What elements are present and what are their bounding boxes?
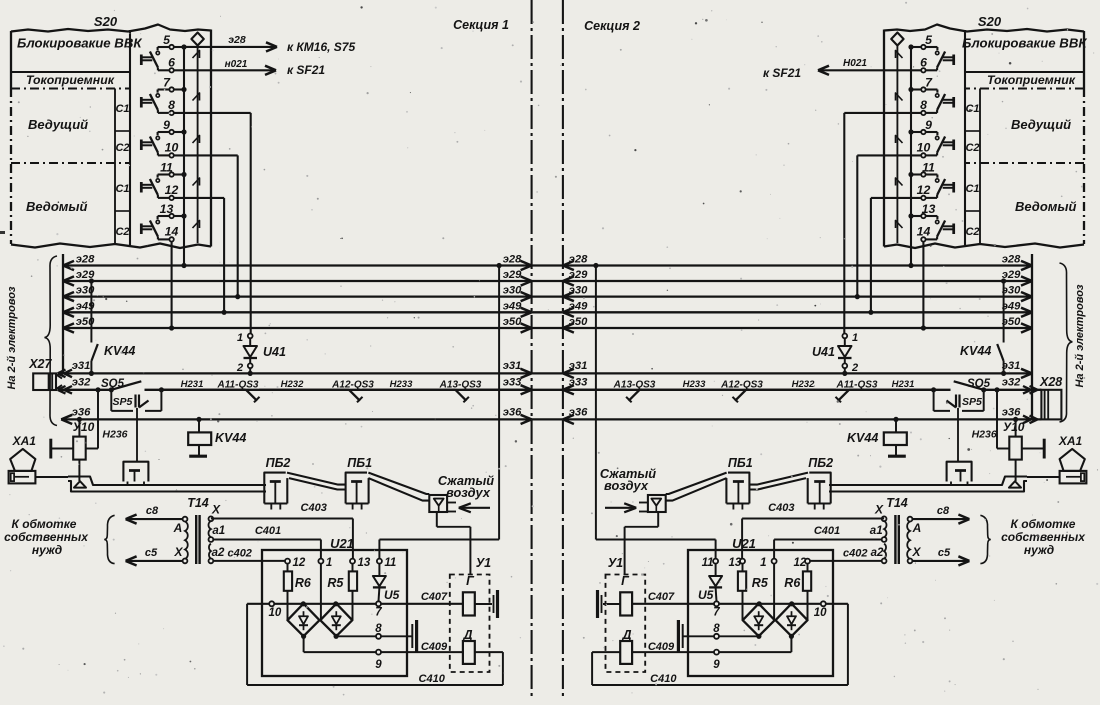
svg-text:10: 10 [165, 140, 179, 154]
contact KV44 (left) [89, 278, 98, 376]
pin number 6 (right) [920, 55, 927, 69]
svg-text:2: 2 [851, 362, 858, 374]
svg-text:Г: Г [621, 574, 630, 588]
svg-text:э32: э32 [1002, 377, 1021, 389]
wire contact 8 down to diode U41 (left) [174, 113, 251, 334]
svg-text:э28: э28 [1002, 254, 1021, 266]
electro-pneumatic valve Y1 (left) [450, 575, 498, 673]
pin number 8 (right) [920, 98, 927, 112]
resistor R6 (right) [803, 564, 811, 621]
label U41 pin 1 (right) [852, 332, 858, 344]
electro-pneumatic valve Y1 (right) [598, 575, 646, 673]
svg-text:7: 7 [713, 607, 720, 619]
svg-text:8: 8 [375, 623, 382, 635]
wire collector vertical to bus e28 (right) [908, 47, 913, 268]
svg-text:Ведущий: Ведущий [28, 117, 88, 132]
label S20 (right) [978, 14, 1002, 29]
svg-text:Т14: Т14 [187, 496, 209, 510]
label SQ5 (right) [967, 378, 991, 390]
S20 blocking-switch box outline (left) [11, 25, 211, 249]
svg-text:R6: R6 [295, 576, 312, 590]
bridge rectifier 2 in U21 (right) [743, 604, 775, 637]
label U41 (left) [263, 345, 286, 359]
label C407 (right) [648, 591, 675, 603]
label D (left) [462, 628, 472, 642]
label U21 (right) [732, 536, 756, 551]
label C2 cell 4 (right) [965, 226, 979, 238]
label C409 (left) [421, 641, 448, 653]
label pin 7 (right) [713, 607, 720, 619]
wire e33 last segment (right) [563, 389, 627, 391]
svg-text:э50: э50 [503, 316, 522, 328]
pin number 5 (left) [163, 33, 170, 47]
svg-text:С401: С401 [255, 525, 281, 537]
label C2 cell 2 (right) [965, 142, 979, 154]
wire e31 (left) [58, 360, 531, 378]
svg-text:8: 8 [168, 98, 175, 112]
air hose XA1 (left) [9, 449, 36, 484]
label U5 (left) [384, 588, 400, 602]
U21 pin 11 (left) [377, 557, 396, 569]
svg-text:11: 11 [702, 557, 714, 569]
pipe air to valve Y1 (right) [625, 512, 659, 575]
svg-text:Ведомый: Ведомый [26, 199, 87, 214]
svg-text:э50: э50 [569, 316, 588, 328]
svg-text:С401: С401 [814, 525, 840, 537]
svg-text:нужд: нужд [1024, 543, 1054, 557]
bridge rectifier 2 in U21 (left) [320, 604, 352, 637]
label C1 cell 3 (left) [115, 183, 129, 195]
svg-text:Н233: Н233 [390, 379, 413, 390]
svg-text:с8: с8 [146, 505, 159, 517]
contact SP5 (right) [934, 390, 984, 411]
contact S20:13-14 (right) [921, 214, 954, 242]
svg-text:э31: э31 [1002, 360, 1021, 372]
label n021 [225, 59, 248, 70]
pipe SP5 to air sensor (right) [957, 408, 959, 462]
wire contact 11 to collector (right) [908, 172, 921, 177]
label pin 10 (left) [269, 607, 282, 619]
svg-text:11: 11 [384, 557, 396, 569]
svg-text:э33: э33 [503, 377, 522, 389]
label C402 (left) [227, 548, 251, 560]
wire contact 11 to collector (left) [174, 172, 187, 177]
pantograph diamond and marked line (right) [891, 33, 903, 244]
label to KM16,S75 [287, 40, 355, 54]
disconnector А12-QS3 blade (right) [733, 390, 837, 403]
transformer T14 (left) [183, 515, 214, 564]
svg-text:А: А [912, 521, 922, 535]
wire C401 (left) [213, 540, 321, 559]
label pin 8 (right) [713, 623, 720, 635]
svg-text:Ведущий: Ведущий [1011, 117, 1071, 132]
svg-text:10: 10 [917, 140, 931, 154]
svg-text:Х27: Х27 [28, 357, 52, 371]
contact S20:7-8 (left) [141, 87, 174, 115]
label C407 (left) [421, 591, 448, 603]
U21 pin 12 (right) [794, 557, 811, 569]
label Blokirovanie VVK (right) [962, 36, 1087, 51]
svg-text:С407: С407 [421, 591, 448, 603]
pantograph diamond and marked line (left) [191, 33, 203, 244]
svg-text:Секция 1: Секция 1 [453, 18, 509, 32]
pin number 9 (left) [163, 118, 170, 132]
label wire Н232 (right) [792, 379, 815, 390]
label U41 pin 2 (left) [236, 362, 243, 374]
svg-text:Секция 2: Секция 2 [584, 19, 640, 33]
label U21 (left) [330, 536, 354, 551]
svg-text:э30: э30 [1002, 285, 1021, 297]
wire e32/e33 (right) [563, 377, 1042, 395]
svg-text:Н236: Н236 [972, 429, 997, 441]
label Tokopriemnik (left) [26, 73, 115, 87]
svg-text:Токоприемник: Токоприемник [26, 73, 115, 87]
diode U5 (left) [373, 564, 386, 602]
label C1 cell 1 (right) [965, 103, 979, 115]
label S20 (left) [94, 14, 118, 29]
label N236 (left) [102, 429, 127, 441]
svg-text:14: 14 [165, 224, 179, 238]
svg-text:воздух: воздух [446, 485, 491, 500]
wire e31 (right) [563, 360, 1032, 378]
svg-text:С403: С403 [301, 502, 327, 514]
svg-text:э31: э31 [503, 360, 522, 372]
contact S20:5-6 (left) [141, 45, 174, 73]
label n021 (right) [843, 58, 867, 69]
svg-text:C1: C1 [115, 103, 129, 115]
contact S20:9-10 (left) [141, 130, 174, 158]
label c8 (left) [146, 505, 159, 517]
label wire Н232 (left) [281, 379, 304, 390]
label c5 (left) [145, 547, 158, 559]
label U41 pin 1 (left) [237, 332, 243, 344]
pipe air to valve Y1 (left) [437, 512, 471, 575]
diode U5 (right) [709, 564, 722, 602]
label C403 (right) [768, 502, 794, 514]
svg-text:KV44: KV44 [104, 344, 135, 358]
svg-text:к SF21: к SF21 [287, 63, 325, 77]
label C410 (right) [650, 673, 677, 685]
pin number 11 (right) [922, 161, 935, 175]
label wire Н231 (right) [892, 379, 915, 390]
wire contact 13 to collector (left) [174, 213, 187, 218]
label T14 A (right) [912, 521, 922, 535]
svg-text:а1: а1 [212, 525, 225, 537]
label U41 pin 2 (right) [851, 362, 858, 374]
wire contact 7 to collector (right) [908, 87, 921, 92]
label C410 (left) [419, 673, 446, 685]
wire C402 (left) [213, 560, 285, 562]
label KV44 (right) [960, 344, 991, 358]
svg-text:Д: Д [462, 628, 472, 642]
label C409 (right) [648, 641, 675, 653]
brace to own-needs winding (right) [980, 515, 990, 563]
connector X28 (right) [1041, 390, 1061, 420]
svg-text:SQ5: SQ5 [101, 378, 125, 390]
svg-text:8: 8 [713, 623, 720, 635]
svg-text:Н021: Н021 [843, 58, 867, 69]
connector X27 (left) [33, 370, 72, 394]
contact SQ5 (right) [931, 381, 986, 392]
svg-text:к КМ16, S75: к КМ16, S75 [287, 40, 355, 54]
wire c5 (right) [912, 556, 969, 565]
label KV44 coil (left) [215, 431, 246, 445]
svg-text:э28: э28 [569, 254, 588, 266]
wire contact 14 to bus e50 (left) [169, 242, 174, 331]
bus wire э28 (right) [563, 254, 1032, 271]
svg-text:12: 12 [165, 183, 179, 197]
svg-text:А11-QS3: А11-QS3 [217, 380, 259, 391]
svg-text:7: 7 [375, 607, 382, 619]
svg-text:U5: U5 [698, 588, 714, 602]
svg-text:Н231: Н231 [892, 379, 915, 390]
contact SP5 (left) [111, 390, 161, 411]
pneumatic interlock PB2 (right) [808, 473, 831, 510]
contact S20:11-12 (right) [921, 172, 954, 200]
svg-text:12: 12 [293, 557, 306, 569]
label T14 X upper (right) [874, 503, 884, 517]
svg-text:1: 1 [760, 557, 766, 569]
pin number 6 (left) [168, 55, 175, 69]
svg-text:э50: э50 [1002, 316, 1021, 328]
U21 pin 12 (left) [285, 557, 306, 569]
air pipe from XA1 (right) [829, 477, 1060, 492]
resistor R5 (left) [349, 564, 357, 621]
label XA1 (left) [12, 434, 37, 448]
label Vedomyy (right) [1015, 199, 1076, 214]
label c5 (right) [938, 547, 951, 559]
svg-text:U41: U41 [263, 345, 286, 359]
svg-text:э33: э33 [569, 377, 588, 389]
S20 blocking-switch box outline (right) [884, 25, 1084, 249]
svg-text:э30: э30 [503, 285, 522, 297]
svg-text:А12-QS3: А12-QS3 [331, 380, 374, 391]
wire contact 12 to bus e49 (left) [174, 198, 227, 315]
svg-text:а2: а2 [871, 547, 884, 559]
svg-text:5: 5 [925, 33, 932, 47]
pipe SP5 to air sensor (left) [136, 408, 138, 462]
brace to own-needs winding [104, 515, 114, 563]
label А12-QS3 (right) [720, 380, 763, 391]
label PB2 (right) [808, 456, 833, 470]
svg-text:ПБ1: ПБ1 [728, 456, 753, 470]
svg-text:э28: э28 [503, 254, 522, 266]
svg-text:R5: R5 [327, 576, 344, 590]
wire C401 (right) [774, 540, 882, 559]
svg-text:Блокировакие ВВК: Блокировакие ВВК [962, 36, 1087, 51]
svg-text:э28: э28 [228, 34, 246, 46]
svg-text:C2: C2 [965, 142, 979, 154]
wire pin7/pin10 rail with C407 (left) [247, 601, 463, 606]
label C401 (left) [255, 525, 281, 537]
label C403 (left) [301, 502, 327, 514]
svg-text:9: 9 [163, 118, 170, 132]
svg-text:U21: U21 [330, 536, 354, 551]
svg-text:1: 1 [326, 557, 332, 569]
label Szhatyi vozdukh (right) [600, 466, 656, 493]
label K obmotke sobstvennykh nuzhd (right) [1001, 517, 1086, 557]
svg-text:12: 12 [794, 557, 807, 569]
label N236 (right) [972, 429, 997, 441]
pressure sensor housing for SP5 (right) [947, 462, 972, 485]
rectifier block U21 outline (left) [262, 550, 407, 676]
resistor R5 (right) [738, 564, 746, 621]
bridge rectifier 1 in U21 (left) [288, 604, 320, 637]
bus terminus vertical (right) [1031, 254, 1033, 419]
svg-text:э28: э28 [76, 254, 95, 266]
wire contact 10 to bus e30 (right) [855, 155, 922, 299]
svg-text:воздух: воздух [604, 478, 649, 493]
svg-text:KV44: KV44 [215, 431, 246, 445]
svg-text:А11-QS3: А11-QS3 [836, 380, 878, 391]
svg-text:э36: э36 [569, 407, 588, 419]
svg-text:U41: U41 [812, 345, 835, 359]
pin number 7 (right) [925, 76, 933, 90]
svg-text:э49: э49 [569, 300, 588, 312]
label Sektsiya 1 [453, 18, 509, 32]
svg-text:А13-QS3: А13-QS3 [613, 380, 656, 391]
label Y1 (right) [608, 556, 623, 570]
section divider line (section 1) [531, 0, 533, 700]
disconnector А12-QS3 blade (left) [259, 390, 363, 403]
bus wire э50 (right) [563, 316, 1032, 333]
transformer T14 (right) [882, 515, 913, 564]
svg-text:с8: с8 [937, 505, 950, 517]
valve Y10 (left) [51, 387, 101, 487]
svg-text:Н231: Н231 [181, 379, 204, 390]
svg-text:C1: C1 [115, 183, 129, 195]
wire e36 (right) [563, 407, 1042, 425]
svg-text:C1: C1 [965, 103, 979, 115]
svg-text:С410: С410 [419, 673, 446, 685]
wire e36 (left) [61, 407, 531, 425]
pin number 14 (left) [165, 224, 179, 238]
bus wire э28 (left) [63, 254, 532, 271]
bus wire э29 (right) [563, 269, 1032, 286]
label D (right) [621, 628, 631, 642]
bus wire э29 (left) [63, 269, 532, 286]
svg-text:собственных: собственных [4, 530, 89, 544]
label Sektsiya 2 [584, 19, 640, 33]
svg-text:Х: Х [874, 503, 884, 517]
wire contact 14 to bus e50 (right) [921, 242, 926, 331]
label T14 a2 (right) [871, 547, 884, 559]
wire U21 pin 1 to bridge vertex (left) [320, 564, 322, 621]
svg-text:К обмотке: К обмотке [12, 517, 77, 531]
svg-text:с5: с5 [145, 547, 158, 559]
svg-text:э49: э49 [1002, 300, 1021, 312]
brace to 2nd locomotive (right) [1060, 263, 1073, 422]
svg-text:9: 9 [925, 118, 932, 132]
brace to 2nd locomotive (left) [45, 256, 58, 426]
U21 pin 1 (right) [760, 557, 777, 569]
wire pin 8 with capacitor C409 (right) [678, 620, 761, 652]
svg-text:14: 14 [917, 224, 931, 238]
compressed air inlet (right) [605, 495, 666, 512]
disconnector А13-QS3 blade (left) [362, 390, 469, 403]
wire C403 (right) [742, 519, 884, 559]
label c8 (right) [937, 505, 950, 517]
bus terminus vertical (left) [62, 254, 64, 373]
contact S20:9-10 (right) [921, 130, 954, 158]
label KV44 (left) [104, 344, 135, 358]
label T14 X lower (right) [911, 545, 921, 559]
pin number 8 (left) [168, 98, 175, 112]
svg-text:собственных: собственных [1001, 530, 1086, 544]
bus wire э50 (left) [63, 316, 532, 333]
label Y10 (right) [1003, 420, 1025, 434]
label R6 (left) [295, 576, 312, 590]
air hose XA1 (right) [1060, 449, 1087, 484]
svg-text:с5: с5 [938, 547, 951, 559]
pneumatic interlock PB1 (right) [726, 473, 749, 510]
pin number 14 (right) [917, 224, 931, 238]
svg-text:С410: С410 [650, 673, 677, 685]
svg-text:Токоприемник: Токоприемник [987, 73, 1076, 87]
pressure sensor housing for SP5 (left) [123, 462, 148, 485]
disconnector А11-QS3 blade (left) [161, 390, 259, 403]
wire contact 9 to collector (left) [174, 129, 187, 134]
svg-text:13: 13 [729, 557, 742, 569]
wire contact 8 down to diode U41 (right) [844, 113, 921, 334]
resistor R6 (left) [284, 564, 292, 621]
label T14 a1 (left) [212, 525, 225, 537]
svg-text:SP5: SP5 [113, 396, 133, 408]
contact S20:11-12 (left) [141, 172, 174, 200]
label R5 (right) [752, 576, 769, 590]
wire pin 8 with capacitor C409 (left) [334, 620, 417, 652]
svg-text:1: 1 [237, 332, 243, 344]
label Tokopriemnik (right) [987, 73, 1076, 87]
label PB1 (right) [728, 456, 753, 470]
svg-text:11: 11 [922, 161, 935, 175]
svg-text:9: 9 [375, 659, 382, 671]
bus wire э30 (left) [63, 285, 532, 302]
label U41 (right) [812, 345, 835, 359]
svg-text:Х: Х [173, 545, 183, 559]
label to SF21 (right) [763, 66, 801, 80]
label pin 9 (left) [375, 659, 382, 671]
svg-text:ХА1: ХА1 [1058, 434, 1083, 448]
label Na 2-y elektrovoz (right) [1074, 284, 1086, 387]
svg-text:11: 11 [160, 161, 173, 175]
svg-text:U5: U5 [384, 588, 400, 602]
label Y10 (left) [73, 420, 95, 434]
wire contact 9 to collector (right) [908, 129, 921, 134]
label Na 2-y elektrovoz (left) [6, 286, 18, 389]
svg-text:SP5: SP5 [962, 396, 982, 408]
svg-text:1: 1 [852, 332, 858, 344]
label А11-QS3 (right) [836, 380, 878, 391]
svg-text:а2: а2 [212, 547, 225, 559]
wire C402 (right) [810, 560, 882, 562]
svg-text:э36: э36 [72, 407, 91, 419]
wire e28 to KM16,S75 with arrow [184, 42, 277, 51]
U21 pin 13 (left) [350, 557, 371, 569]
svg-text:У1: У1 [476, 556, 491, 570]
svg-text:R5: R5 [752, 576, 769, 590]
label T14 (left) [187, 496, 209, 510]
label e28 (top wire) [228, 34, 246, 46]
svg-text:Г: Г [466, 574, 475, 588]
label XA1 (right) [1058, 434, 1083, 448]
svg-text:ПБ2: ПБ2 [808, 456, 833, 470]
label SP5 (right) [962, 396, 982, 408]
U21 pin 1 (left) [318, 557, 332, 569]
diode U41 (right) [838, 334, 852, 377]
svg-text:ПБ2: ПБ2 [266, 456, 291, 470]
svg-text:13: 13 [922, 202, 936, 216]
